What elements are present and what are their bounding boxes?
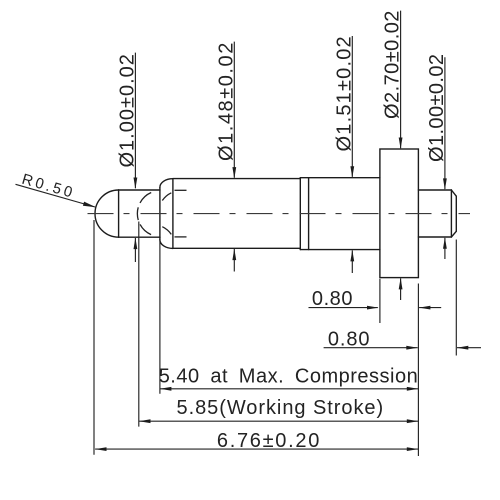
svg-text:Ø1.51±0.02: Ø1.51±0.02 [333,35,355,151]
dim line 0.80 tail right part [457,347,481,349]
dim line 5.85 [139,420,418,422]
arrow 6.76 left [95,447,107,451]
leader dia 2.70 bottom stub [400,278,402,300]
tail end face [455,196,457,231]
arrow dia2.70 down [399,138,403,150]
arrow dia1.51 up [350,250,354,262]
leader R0.50 [16,184,96,207]
arrow 0.80 flange left-pointing [419,306,431,310]
arrow 6.76 right [407,447,419,451]
svg-text:5.85(Working Stroke): 5.85(Working Stroke) [177,397,385,419]
hidden seat arc lower dash [162,227,171,235]
arrow 5.85 left [139,419,151,423]
hidden seat arc upper dash [162,193,171,201]
rear barrel top edge [300,177,380,179]
arrow 5.85 right [407,419,419,423]
leader dia 1.51 top [351,36,353,177]
arrow dia1.51 down [350,166,354,178]
plunger cylinder top edge [119,189,160,191]
flange [380,149,419,278]
leader dia 1.48 top [233,42,235,178]
arrow dia1.00 up [134,238,138,250]
dim line 5.40 [160,388,418,390]
leader dia 1.00 tail top [444,57,446,189]
extension line at flange right [417,284,419,457]
leader dia 1.00 tail bottom stub [444,238,446,259]
leader dia 1.48 bottom stub [233,249,235,272]
leader dia 1.00 plunger top [134,53,136,189]
arrow dia1.00 down [134,178,138,190]
arrow dia1.00 tail down [443,178,447,190]
dim line 6.76 [95,448,418,450]
hidden plunger bottom edge dash [175,236,187,238]
svg-text:Ø2.70±0.02: Ø2.70±0.02 [382,10,404,119]
dim line 0.80 flange right part [419,307,441,309]
arrow 5.40 left [160,387,172,391]
barrel nose top shoulder [160,179,173,188]
svg-text:Ø1.48±0.02: Ø1.48±0.02 [215,41,237,161]
arrow R0.50 leader [83,202,96,208]
extension line at barrel nose [159,240,161,394]
svg-text:Ø1.00±0.02: Ø1.00±0.02 [426,54,448,162]
rear barrel bottom edge [300,249,380,251]
plunger ball tip R0.50 [95,190,119,237]
arrow 0.80 flange right-pointing [367,306,379,310]
leader dia 1.00 plunger bottom stub [134,238,136,262]
barrel nose bottom shoulder [160,240,173,249]
plunger cylinder bottom edge [119,236,160,238]
arrow 0.80 tail right-pointing [406,346,418,350]
tail bottom edge [418,236,451,238]
leader dia 1.51 bottom stub [351,250,353,273]
arrow 5.40 right [407,387,419,391]
extension line at flange left [379,279,381,323]
svg-text:0.80: 0.80 [312,288,353,310]
svg-text:Ø1.00±0.02: Ø1.00±0.02 [117,53,139,167]
part outline: pogo pin [95,149,456,278]
extension line at ball tip [93,220,95,455]
barrel top edge [173,178,300,180]
ball tangent line [118,190,120,237]
arrowheads [83,138,468,452]
dim line 0.80 tail left part [324,347,418,349]
barrel nose face [159,188,161,240]
barrel step line 1 [299,178,301,250]
tail chamfer line [450,190,452,237]
barrel bottom edge [173,247,300,249]
centerline [88,213,471,215]
hidden plunger seat arc (dashed) [137,193,151,235]
arrow dia1.00 tail up [443,237,447,249]
arrow dia1.48 up [232,249,236,261]
hidden plunger top edge dash [175,189,187,191]
svg-text:6.76±0.20: 6.76±0.20 [217,430,321,452]
extension line at tail end [455,240,457,356]
dim line 0.80 flange left part [309,307,378,309]
barrel step line 2 [308,178,310,250]
tail bottom chamfer [451,231,456,237]
svg-text:5.40 at Max. Compression: 5.40 at Max. Compression [159,366,419,388]
tail top edge [418,189,451,191]
tail top chamfer [451,190,456,196]
svg-text:0.80: 0.80 [328,328,371,350]
arrow dia1.48 down [232,167,236,179]
barrel nose edge line [172,179,174,249]
arrow dia2.70 up [399,278,403,290]
arrow 0.80 tail left-pointing [457,346,469,350]
extension line at stroke start [138,222,140,427]
leader dia 2.70 top [400,11,402,149]
